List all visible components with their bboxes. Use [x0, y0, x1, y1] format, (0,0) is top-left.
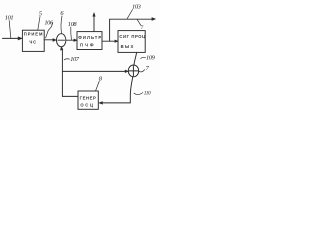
- adder 7 circle: [128, 65, 138, 77]
- mixer 6 bar: [58, 39, 65, 41]
- svg-text:ПЧФ: ПЧФ: [80, 42, 96, 47]
- svg-text:8: 8: [99, 75, 103, 82]
- block: IF filter: [77, 32, 102, 50]
- wire arrowhead into box2: [74, 39, 77, 42]
- svg-text:СИГ ПРОЦ: СИГ ПРОЦ: [119, 34, 146, 39]
- wire box2 to box3: [102, 40, 118, 42]
- node 107 leader tilde: [64, 59, 69, 60]
- node 8 leader: [96, 81, 100, 91]
- svg-text:101: 101: [5, 14, 14, 21]
- wire arrowhead into mixer bottom: [60, 47, 63, 50]
- svg-text:ВЫХ: ВЫХ: [121, 44, 135, 49]
- svg-text:5: 5: [39, 11, 42, 18]
- wire arrowhead output 103: [152, 18, 156, 21]
- wire mixer to box2: [66, 39, 77, 41]
- mixer 6 circle: [57, 34, 66, 47]
- adder 7 plus sign: [129, 66, 138, 76]
- svg-text:108: 108: [68, 21, 78, 28]
- svg-text:6: 6: [60, 10, 64, 17]
- wire box3 bottom to adder: [134, 52, 137, 64]
- wire input 101: [3, 37, 22, 39]
- wire vertical up into mixer: [61, 47, 64, 96]
- block: signal processor/output: [118, 31, 145, 53]
- node 109 leader tilde: [141, 56, 146, 59]
- wire arrowhead into mixer: [53, 39, 56, 42]
- node 110 leader tilde: [134, 93, 143, 95]
- block 8 (local oscillator): [78, 91, 98, 109]
- wire junction tap up to output 103: [110, 19, 153, 41]
- wire arrowhead into box3: [115, 40, 118, 42]
- svg-text:7: 7: [146, 65, 150, 72]
- svg-text:7: 7: [141, 25, 144, 31]
- svg-text:ГЕНЕР: ГЕНЕР: [80, 95, 97, 100]
- svg-text:106: 106: [44, 20, 54, 27]
- svg-text:ЧС: ЧС: [29, 39, 37, 44]
- wire arrowhead into block 5: [18, 37, 22, 40]
- wire adder down and left into box4: [103, 77, 133, 103]
- node 106 leader: [46, 23, 53, 39]
- svg-text:ФИЛЬТР: ФИЛЬТР: [78, 35, 102, 40]
- wire box4 left to vertical: [62, 95, 78, 97]
- wire arrowhead into box4: [99, 102, 103, 105]
- wire box1 to mixer: [44, 39, 53, 41]
- node 103 leader: [127, 10, 132, 19]
- node 101 leader: [9, 21, 11, 39]
- node 7 leader tilde: [139, 70, 145, 72]
- svg-text:110: 110: [144, 91, 151, 97]
- node 6 leader: [61, 16, 62, 34]
- svg-text:103: 103: [132, 3, 141, 10]
- block 5 (tuner/converter): [22, 30, 44, 51]
- svg-text:109: 109: [146, 55, 156, 62]
- wire arrowhead into adder left: [125, 70, 128, 73]
- svg-text:ОСЦ: ОСЦ: [80, 103, 94, 108]
- node 108 leader: [70, 27, 73, 40]
- svg-text:ПРИЕМ: ПРИЕМ: [24, 32, 44, 37]
- node 7 small leader: [137, 20, 141, 26]
- wire branch to adder: [62, 70, 127, 72]
- wire box2 top output arrow up: [93, 14, 95, 31]
- svg-text:107: 107: [70, 56, 80, 63]
- node 5 leader: [38, 17, 40, 31]
